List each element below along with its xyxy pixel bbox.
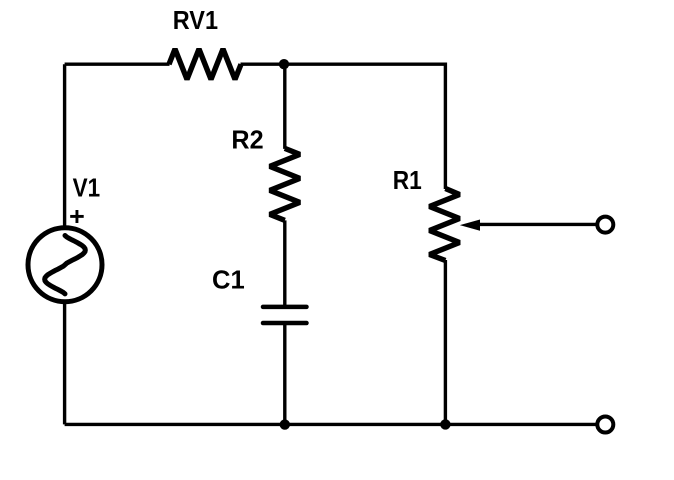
resistor RV1 [169,49,241,79]
junction node at RV1/R2 top [279,59,289,69]
wire top left horizontal [65,62,170,65]
voltage source V1 circle [28,228,102,302]
capacitor C1 bottom plate [263,321,307,326]
svg-text:R1: R1 [393,167,422,195]
resistor R2 [270,148,300,220]
wire R1 bottom to bottom rail [444,260,447,424]
sine wave of V1 [45,236,86,294]
wire middle column node to R2 top [283,64,286,149]
svg-text:C1: C1 [212,267,245,295]
potentiometer R1 [430,189,460,261]
junction node at R1 bottom [440,419,450,429]
wire wiper to right terminal [479,223,597,226]
wire left vertical (V1 branch) [63,64,66,424]
capacitor C1 top plate [263,305,307,310]
terminal upper right [597,217,613,233]
svg-text:RV1: RV1 [173,7,218,35]
wire top right horizontal and right vertical down to R1 [241,64,446,189]
junction node at C1 bottom [280,419,290,429]
wire bottom rail [65,423,597,426]
svg-text:V1: V1 [73,174,101,202]
svg-text:R2: R2 [231,126,263,154]
plus polarity mark of V1 [70,210,84,223]
wire C1 bottom plate to bottom rail [283,324,286,424]
wire R2 bottom to C1 top plate [283,220,286,305]
wiper arrowhead of R1 [460,220,480,231]
terminal lower right [597,417,613,433]
